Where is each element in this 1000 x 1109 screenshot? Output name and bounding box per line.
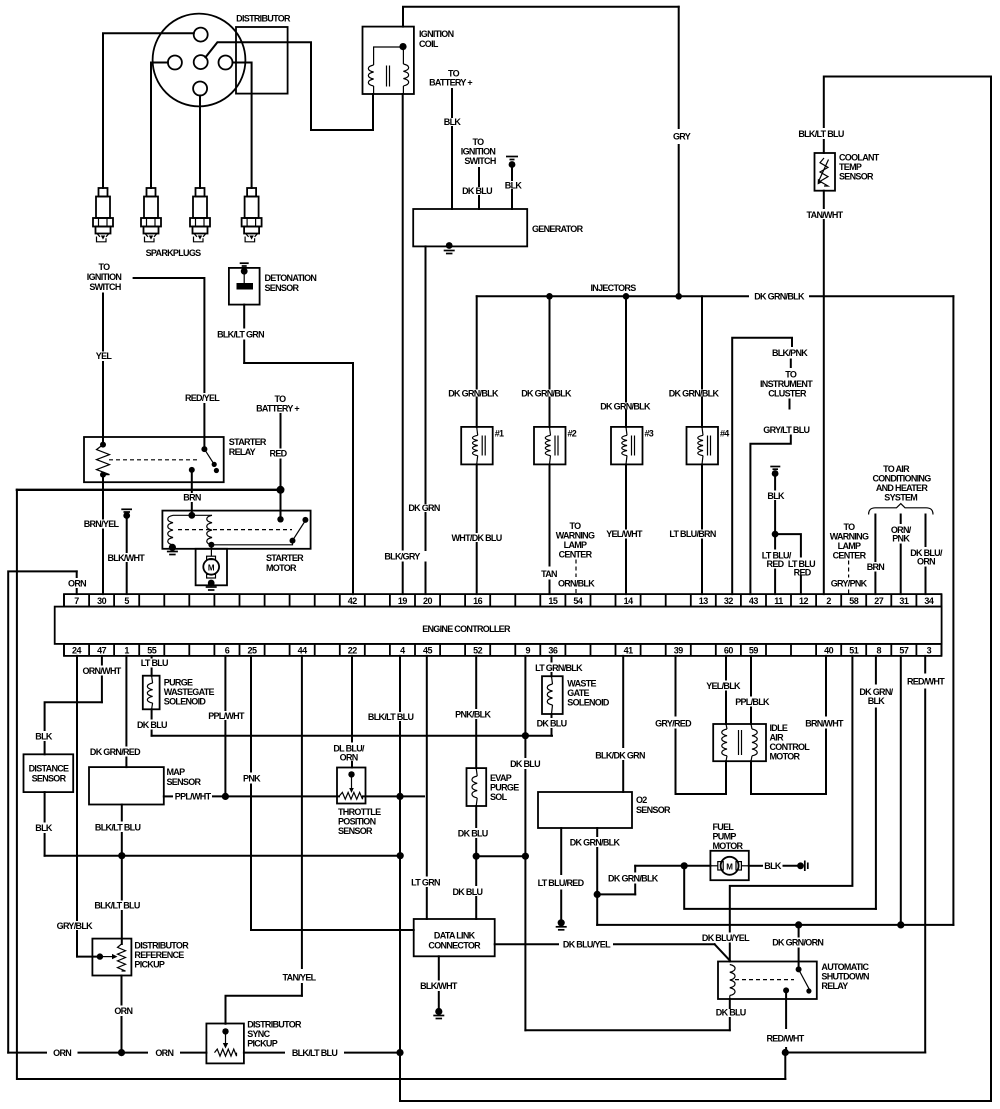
svg-text:POSITION: POSITION <box>338 817 376 827</box>
MAP sensor box <box>89 767 164 804</box>
svg-text:RED/WHT: RED/WHT <box>766 1034 804 1044</box>
O2 ground dot <box>558 919 565 926</box>
IAC winding left <box>726 724 727 729</box>
wire injector #4 feed <box>701 296 703 388</box>
ASD relay dashed actuation <box>735 979 794 981</box>
wire LT BLU pin 55 to purge solenoid <box>151 656 153 658</box>
svg-text:ORN/WHT: ORN/WHT <box>82 666 121 676</box>
svg-text:IGNITION: IGNITION <box>419 29 454 39</box>
svg-text:SPARKPLUGS: SPARKPLUGS <box>146 248 202 258</box>
svg-text:13: 13 <box>699 596 709 606</box>
svg-text:STARTER: STARTER <box>229 437 267 447</box>
distance sensor box <box>24 754 74 792</box>
svg-text:BLK/LT BLU: BLK/LT BLU <box>95 823 141 833</box>
svg-text:11: 11 <box>774 596 783 606</box>
fuel pump brush right <box>736 862 741 870</box>
svg-text:8: 8 <box>877 645 882 655</box>
reference pickup input dot <box>97 953 103 959</box>
wire LT GRN/BLK pin 36 to waste gate <box>551 656 553 662</box>
starter relay coil <box>97 445 110 475</box>
svg-text:GENERATOR: GENERATOR <box>532 224 584 234</box>
wire GRY to injector bus <box>678 7 680 128</box>
wire frame bottom left <box>400 77 991 1102</box>
ignition coil primary lower leads <box>373 86 375 94</box>
bus junction dot injector 3 <box>623 293 630 300</box>
svg-text:24: 24 <box>72 645 82 655</box>
generator ground dot <box>446 242 453 249</box>
starter motor sub box <box>196 549 227 586</box>
wire BRN to pin 27 <box>874 515 876 562</box>
svg-text:57: 57 <box>899 645 909 655</box>
svg-text:SENSOR: SENSOR <box>265 283 300 293</box>
svg-text:RELAY: RELAY <box>229 447 256 457</box>
svg-text:RELAY: RELAY <box>821 981 848 991</box>
junction dot DK GRN/ORN tap <box>795 921 802 928</box>
junction dot LT BLU/RED <box>772 531 779 538</box>
engine controller bottom pin row <box>64 644 941 656</box>
junction dot DK BLU pin 9 <box>522 732 529 739</box>
ASD relay switch <box>796 966 802 972</box>
svg-text:47: 47 <box>97 645 107 655</box>
starter relay output contact <box>189 467 195 473</box>
svg-text:TO: TO <box>473 137 485 147</box>
svg-text:LT GRN/BLK: LT GRN/BLK <box>535 663 583 673</box>
starter relay actuation dashed line <box>109 459 199 461</box>
wire PPL/BLK pin 59 to IAC <box>750 656 752 696</box>
svg-text:TAN/WHT: TAN/WHT <box>807 210 844 220</box>
svg-text:MOTOR: MOTOR <box>770 752 801 762</box>
svg-text:16: 16 <box>473 596 483 606</box>
wire to pin 11 <box>774 534 776 548</box>
wire O2 down to crossbar <box>596 894 598 925</box>
data link connector box <box>414 919 495 956</box>
svg-text:M: M <box>208 563 215 572</box>
sparkplug 2 <box>147 188 156 197</box>
svg-text:LAMP: LAMP <box>564 540 587 550</box>
svg-text:30: 30 <box>97 596 107 606</box>
svg-text:BLK/LT BLU: BLK/LT BLU <box>292 1048 338 1058</box>
sync pickup arrow <box>225 1031 227 1043</box>
junction dot DK BLU evap <box>473 853 480 860</box>
wire DK GRN/BLK to fuel pump <box>597 893 635 895</box>
wire BLK/LT GRN detonation to pin 42 <box>243 305 245 328</box>
svg-text:BLK/DK GRN: BLK/DK GRN <box>595 751 645 761</box>
idle air control motor box <box>713 724 766 761</box>
fuel pump brush left <box>718 862 723 870</box>
svg-text:PPL/WHT: PPL/WHT <box>175 792 212 802</box>
svg-text:DK BLU/YEL: DK BLU/YEL <box>702 933 750 943</box>
evap purge solenoid <box>467 768 487 806</box>
dashed link GRY/LT BLU upper <box>789 400 791 409</box>
svg-text:AND HEATER: AND HEATER <box>876 483 929 493</box>
wire ORN/WHT pin 47 to distance sensor <box>101 656 103 665</box>
svg-text:ORN: ORN <box>114 1006 132 1016</box>
throttle position sensor box <box>337 768 366 804</box>
label DK BLU/YEL (relay) <box>701 933 751 943</box>
generator ground <box>444 250 455 252</box>
svg-text:SYNC: SYNC <box>247 1029 270 1039</box>
junction dot BLK/LT BLU frame <box>396 1049 403 1056</box>
wire DK BLU ASD coil return <box>729 999 731 1008</box>
svg-text:DK GRN/BLK: DK GRN/BLK <box>754 292 805 302</box>
ASD relay output contact <box>783 987 789 993</box>
svg-text:CLUSTER: CLUSTER <box>768 389 807 399</box>
svg-text:MAP: MAP <box>167 767 186 777</box>
svg-text:MOTOR: MOTOR <box>713 841 744 851</box>
wire DK GRN/BLK right side down <box>952 296 954 925</box>
svg-text:EVAP: EVAP <box>490 773 512 783</box>
svg-text:PURGE: PURGE <box>164 678 193 688</box>
svg-text:THROTTLE: THROTTLE <box>338 807 381 817</box>
wire BLK/LT BLU pin 4 <box>399 656 401 711</box>
svg-text:BLK: BLK <box>764 861 782 871</box>
wire tower-bottom to sparkplug 3 <box>199 96 201 189</box>
starter motor ground <box>167 551 178 553</box>
label BLK/GRY <box>378 551 427 562</box>
wire ORN left segment <box>8 1052 46 1054</box>
ignition coil box <box>363 27 414 94</box>
svg-text:DISTRIBUTOR: DISTRIBUTOR <box>247 1020 302 1030</box>
wire ignition switch to RED/YEL <box>134 278 205 392</box>
svg-text:YEL/BLK: YEL/BLK <box>706 681 741 691</box>
detonation sensor dot <box>241 268 248 275</box>
svg-text:41: 41 <box>624 645 634 655</box>
starter motor winding 2 dot <box>208 542 214 548</box>
wire to pin 12 <box>775 534 801 556</box>
junction dot DK BLU column <box>522 853 529 860</box>
distributor tower top <box>194 28 208 42</box>
svg-text:36: 36 <box>548 645 558 655</box>
svg-text:DK GRN/RED: DK GRN/RED <box>90 747 141 757</box>
svg-text:42: 42 <box>348 596 358 606</box>
wire ORN/PNK to pin 31 <box>900 515 902 524</box>
wire DK GRN generator to pin 20 <box>425 246 427 503</box>
wire BLK/DK GRN pin 41 to O2 sensor <box>622 656 624 747</box>
starter motor contact link <box>211 541 292 545</box>
junction dot pin 6 PPL/WHT <box>222 793 229 800</box>
svg-text:PNK: PNK <box>892 534 910 544</box>
svg-text:SOLENOID: SOLENOID <box>567 698 610 708</box>
svg-text:RED: RED <box>767 559 785 569</box>
junction dot MAP ground <box>118 852 125 859</box>
svg-text:SENSOR: SENSOR <box>167 777 202 787</box>
motor brush top <box>207 556 216 559</box>
svg-text:#4: #4 <box>720 429 729 439</box>
wire BRN relay to starter motor <box>191 470 193 492</box>
svg-text:SYSTEM: SYSTEM <box>884 493 917 503</box>
svg-text:GATE: GATE <box>567 688 589 698</box>
wire BLK battery to generator <box>451 89 453 117</box>
svg-text:DISTRIBUTOR: DISTRIBUTOR <box>134 941 189 951</box>
svg-text:DK GRN: DK GRN <box>408 503 439 513</box>
svg-text:DATA LINK: DATA LINK <box>434 931 476 941</box>
svg-text:GRY: GRY <box>673 132 691 142</box>
svg-text:GRY/LT BLU: GRY/LT BLU <box>763 425 809 435</box>
svg-text:YEL: YEL <box>96 351 113 361</box>
svg-text:PICKUP: PICKUP <box>134 960 165 970</box>
reference pickup arrow <box>100 956 113 958</box>
svg-text:5: 5 <box>124 596 129 606</box>
throttle sensor wiper <box>348 771 354 777</box>
svg-text:MOTOR: MOTOR <box>266 563 297 573</box>
svg-text:DK GRN/BLK: DK GRN/BLK <box>600 402 651 412</box>
engine controller top pin row <box>64 594 941 607</box>
svg-text:PPL/BLK: PPL/BLK <box>735 697 770 707</box>
wire TAN/YEL pin 44 to sync pickup <box>301 656 303 968</box>
wire top frame to coolant sensor <box>824 77 991 154</box>
sparkplug 1 <box>99 188 108 197</box>
svg-text:STARTER: STARTER <box>266 553 304 563</box>
wire injector #1 to pin 16 <box>476 464 478 532</box>
wire DK BLU bus <box>152 735 552 737</box>
distributor tower bottom <box>193 82 207 96</box>
svg-text:CONNECTOR: CONNECTOR <box>428 941 481 951</box>
wire battery feed line <box>17 489 281 491</box>
wire TAN/WHT coolant sensor to pin 2 <box>823 191 825 208</box>
svg-text:58: 58 <box>849 596 859 606</box>
wire BLK/WHT ground to pin 5 <box>126 516 128 553</box>
junction dot fuel pump feed <box>681 862 688 869</box>
motor M circle <box>203 559 219 575</box>
svg-text:BLK: BLK <box>767 491 785 501</box>
svg-text:WASTEGATE: WASTEGATE <box>164 687 215 697</box>
svg-text:DK BLU: DK BLU <box>537 719 567 729</box>
svg-text:32: 32 <box>724 596 734 606</box>
wire DK BLU waste gate down <box>551 714 553 717</box>
svg-text:25: 25 <box>248 645 258 655</box>
svg-text:RED/YEL: RED/YEL <box>185 393 220 403</box>
coolant temp sensor box <box>815 153 836 191</box>
wire DK BLU/ORN to pin 34 <box>925 515 927 547</box>
svg-text:3: 3 <box>927 645 932 655</box>
svg-text:20: 20 <box>423 596 433 606</box>
detonation sensor element <box>243 271 245 283</box>
wire BLK/LT BLU MAP ground <box>121 805 123 821</box>
svg-text:BLK: BLK <box>868 696 886 706</box>
sync pickup element <box>215 1049 237 1056</box>
wire injector #2 feed <box>549 296 551 388</box>
wire BLK fuel pump ground <box>749 865 762 867</box>
svg-text:FUEL: FUEL <box>713 822 735 832</box>
crossbar wire to DK GRN/BLK riser <box>597 924 953 926</box>
svg-text:SENSOR: SENSOR <box>338 826 373 836</box>
svg-text:TO: TO <box>570 521 582 531</box>
svg-text:IGNITION: IGNITION <box>87 272 122 282</box>
IAC winding right <box>751 724 752 729</box>
svg-text:44: 44 <box>298 645 308 655</box>
wire tower-right to sparkplug 4 <box>233 63 252 189</box>
svg-text:31: 31 <box>899 596 909 606</box>
wire pin 32 riser <box>732 338 792 594</box>
svg-text:BLK/PNK: BLK/PNK <box>772 348 808 358</box>
svg-text:DK GRN/BLK: DK GRN/BLK <box>570 838 621 848</box>
svg-text:DK GRN/BLK: DK GRN/BLK <box>448 389 499 399</box>
svg-text:DK BLU: DK BLU <box>458 829 488 839</box>
svg-text:ORN: ORN <box>53 1048 71 1058</box>
wire ORN reference pickup down <box>121 976 123 1005</box>
IAC core <box>738 730 740 755</box>
svg-text:DISTRIBUTOR: DISTRIBUTOR <box>236 14 291 24</box>
svg-text:34: 34 <box>924 596 934 606</box>
automatic shutdown relay box <box>718 962 817 1000</box>
starter relay blade <box>201 446 207 452</box>
svg-text:45: 45 <box>423 645 433 655</box>
starter motor input dot <box>188 512 195 519</box>
junction dot ground bus right <box>397 852 404 859</box>
injector #1 <box>461 427 493 465</box>
motor ground dot <box>208 580 215 587</box>
svg-text:15: 15 <box>548 596 558 606</box>
svg-text:PUMP: PUMP <box>713 832 737 842</box>
O2 sensor box <box>538 792 632 828</box>
svg-text:AIR: AIR <box>770 733 785 743</box>
wire GRY/LT BLU to pin 43 <box>750 436 790 595</box>
ASD relay coil <box>730 965 735 996</box>
wire ORN pin 7 riser <box>76 589 78 594</box>
svg-text:REFERENCE: REFERENCE <box>134 950 184 960</box>
wire to motor brush <box>210 545 212 556</box>
wire coil top to GRY corner <box>403 7 679 27</box>
svg-text:BLK: BLK <box>35 732 53 742</box>
junction dot RED/WHT <box>782 1049 789 1056</box>
svg-text:YEL/WHT: YEL/WHT <box>606 529 643 539</box>
wire GRY/RED pin 39 to IAC <box>675 656 677 716</box>
distributor cap callout box <box>236 27 288 94</box>
svg-text:BRN: BRN <box>183 493 201 503</box>
motor brush bottom <box>207 574 216 578</box>
wire BLK ground to junction <box>774 474 776 490</box>
starter motor dashed actuation <box>178 529 292 531</box>
svg-text:SENSOR: SENSOR <box>839 172 874 182</box>
DLC ground dot <box>435 1008 442 1015</box>
generator box <box>413 209 527 246</box>
svg-text:WARNING: WARNING <box>556 531 595 541</box>
ground above BLK (cluster) <box>770 466 780 468</box>
svg-text:RED/WHT: RED/WHT <box>907 677 945 687</box>
svg-text:60: 60 <box>724 645 734 655</box>
injectors bus wire <box>477 295 748 297</box>
sparkplug 4 <box>247 188 256 197</box>
ignition coil primary winding <box>368 65 373 86</box>
detonation sensor box <box>229 268 260 305</box>
wire DK BLU to generator <box>478 168 480 186</box>
ignition coil junction dot <box>399 43 406 50</box>
DLC ground <box>433 1015 444 1017</box>
sync pickup dot <box>222 1028 228 1034</box>
svg-text:BLK: BLK <box>35 823 53 833</box>
svg-text:14: 14 <box>624 596 634 606</box>
starter motor switch blade <box>290 538 296 544</box>
svg-text:GRY/BLK: GRY/BLK <box>57 921 93 931</box>
svg-text:TO: TO <box>99 262 111 272</box>
wire DK GRN/BLK pin 8 to fuel pump <box>875 656 877 684</box>
svg-text:BLK/LT GRN: BLK/LT GRN <box>217 330 264 340</box>
svg-text:2: 2 <box>826 596 831 606</box>
svg-text:BRN: BRN <box>867 562 885 572</box>
engine controller body <box>55 607 942 644</box>
wire pin 51 to ASD relay coil <box>730 656 853 933</box>
svg-text:SWITCH: SWITCH <box>464 156 495 166</box>
svg-text:59: 59 <box>749 645 759 655</box>
wire injector #4 to pin 13 <box>701 464 703 528</box>
reference pickup element <box>118 944 126 971</box>
bus junction dot GRY <box>675 293 682 300</box>
BLK ground dot <box>772 470 779 477</box>
svg-text:BRN/YEL: BRN/YEL <box>84 519 120 529</box>
svg-text:DISTANCE: DISTANCE <box>29 764 69 774</box>
wire tower-top to sparkplug 1 <box>103 33 194 188</box>
svg-text:DK GRN/BLK: DK GRN/BLK <box>608 873 659 883</box>
svg-text:CONDITIONING: CONDITIONING <box>872 474 931 484</box>
svg-text:54: 54 <box>573 596 583 606</box>
svg-text:#2: #2 <box>568 429 577 439</box>
wire DK BLU link <box>476 855 525 857</box>
svg-text:BLK/LT BLU: BLK/LT BLU <box>798 129 844 139</box>
svg-text:43: 43 <box>749 596 759 606</box>
starter motor field winding 1 <box>168 515 173 545</box>
wire RED to starter motor switch <box>280 414 282 448</box>
svg-text:INSTRUMENT: INSTRUMENT <box>760 379 813 389</box>
wire RED/WHT down to return line <box>784 1053 786 1080</box>
wire DK BLU purge solenoid down <box>151 709 153 718</box>
svg-text:9: 9 <box>526 645 531 655</box>
svg-text:GRY/PNK: GRY/PNK <box>831 579 868 589</box>
svg-text:ORN: ORN <box>155 1048 173 1058</box>
svg-text:#3: #3 <box>645 429 654 439</box>
wire YEL to starter relay coil <box>102 294 104 351</box>
svg-text:BATTERY +: BATTERY + <box>429 78 472 88</box>
distributor sync pickup box <box>206 1024 244 1064</box>
fuel pump ground dot <box>797 862 804 869</box>
svg-text:COIL: COIL <box>419 39 439 49</box>
svg-text:12: 12 <box>799 596 809 606</box>
wire BLK to generator <box>511 164 513 180</box>
wire DK GRN/ORN to ASD switch <box>798 925 800 937</box>
wire pin 57 down <box>900 656 902 925</box>
svg-text:LT BLU: LT BLU <box>141 658 168 668</box>
svg-text:TAN/YEL: TAN/YEL <box>283 972 317 982</box>
injector #3 <box>611 427 643 465</box>
svg-text:SHUTDOWN: SHUTDOWN <box>821 972 869 982</box>
svg-text:BLK: BLK <box>444 117 462 127</box>
wire BLK/GRY coil to pin 19 <box>402 94 404 550</box>
wire LT GRN pin 45 to data link connector <box>426 656 428 876</box>
junction dot RED battery feed <box>277 486 285 494</box>
wire RED/WHT ASD output <box>785 990 787 1028</box>
fuel pump M circle <box>721 857 739 875</box>
svg-text:TEMP: TEMP <box>839 162 862 172</box>
waste gate solenoid <box>542 676 563 714</box>
svg-text:SOL: SOL <box>490 792 508 802</box>
svg-text:TO: TO <box>844 522 856 532</box>
wire BLK/LT BLU sync pickup to frame <box>244 1052 284 1054</box>
injector #4 <box>687 427 719 465</box>
svg-text:DK BLU: DK BLU <box>137 720 167 730</box>
svg-text:RED: RED <box>794 568 812 578</box>
wire ORN/BLK dashed to pin 54 <box>575 560 577 578</box>
svg-text:SENSOR: SENSOR <box>32 774 67 784</box>
svg-text:7: 7 <box>74 596 79 606</box>
svg-text:TO AIR: TO AIR <box>883 464 910 474</box>
svg-text:LT GRN: LT GRN <box>411 877 440 887</box>
svg-text:O2: O2 <box>636 795 647 805</box>
wire BRN/WHT pin 40 to IAC <box>825 656 827 716</box>
svg-text:55: 55 <box>147 645 157 655</box>
svg-text:DK BLU: DK BLU <box>510 759 540 769</box>
wire YEL/BLK pin 60 to IAC <box>725 656 727 680</box>
ignition coil secondary winding <box>403 64 408 86</box>
bus junction dot injector 2 <box>546 293 553 300</box>
